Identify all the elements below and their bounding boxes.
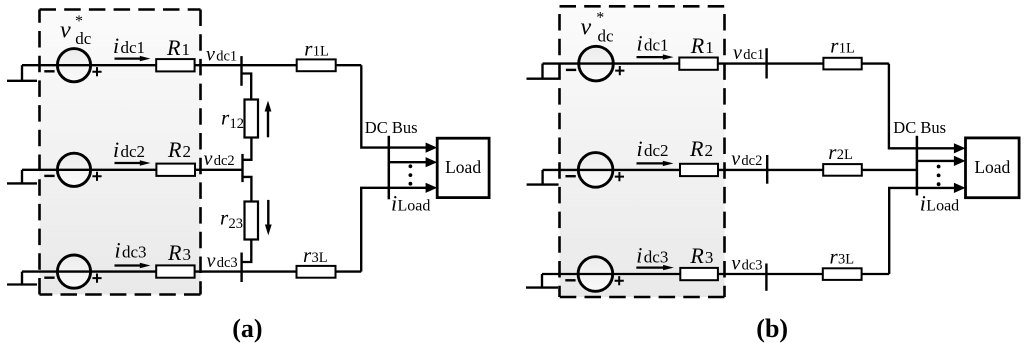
svg-text:v: v: [60, 17, 71, 43]
svg-text:3L: 3L: [838, 252, 854, 268]
label R2 (b): [689, 136, 713, 161]
label idc1 (a): [113, 33, 145, 58]
node tick vdc2 (b): [766, 155, 768, 184]
svg-text:i: i: [113, 137, 119, 162]
resistor R2 (b): [680, 164, 718, 176]
source circle U2b stroke: [578, 153, 613, 188]
svg-text:(b): (b): [756, 314, 788, 343]
polarity plus U1b: [615, 66, 624, 75]
source circle 3b fill: [578, 257, 613, 292]
load label (b): [974, 157, 1010, 177]
svg-text:2: 2: [705, 141, 714, 160]
label DC Bus (a): [365, 118, 418, 137]
label vdc2 (b): [731, 148, 762, 170]
wire row1 (b) down to bus arrow1: [889, 64, 954, 149]
svg-text:dc2: dc2: [121, 142, 146, 161]
svg-text:R: R: [689, 136, 704, 161]
current arrow idc2 (a): [115, 160, 151, 165]
label r23 (a): [220, 206, 243, 233]
polarity plus U3a: [92, 274, 101, 283]
current arrow up beside r12 (a): [265, 101, 272, 138]
resistor r1L (b): [823, 58, 861, 70]
wire row2 (b) main rail: [543, 169, 917, 171]
label r3L (b): [830, 245, 855, 269]
svg-text:2: 2: [183, 142, 192, 161]
polarity minus U2b: [566, 175, 576, 177]
label R3 (b): [689, 243, 713, 268]
resistor r2L (b): [823, 164, 862, 176]
label r1L (a): [304, 36, 329, 60]
svg-text:dc2: dc2: [214, 153, 235, 169]
svg-text:dc3: dc3: [742, 257, 763, 273]
source circle 2a fill: [57, 153, 90, 186]
svg-text:v: v: [731, 252, 740, 274]
resistor R1 (b): [679, 58, 718, 70]
svg-text:3: 3: [183, 245, 192, 264]
load box (b): [966, 138, 1020, 198]
label DC Bus (b): [893, 118, 946, 137]
source circle U1b stroke: [579, 46, 614, 81]
svg-text:Load: Load: [926, 198, 959, 215]
svg-text:DC Bus: DC Bus: [893, 118, 946, 137]
svg-text:dc1: dc1: [121, 38, 146, 57]
polarity plus U2b: [615, 172, 624, 181]
svg-text:1L: 1L: [313, 43, 329, 59]
svg-text:i: i: [637, 31, 643, 56]
source circle U3a stroke: [57, 255, 90, 288]
polarity minus U2a: [44, 175, 54, 177]
node tick vdc3 (b): [765, 264, 767, 291]
converter dashed box (b) border: [560, 6, 725, 297]
label v*dc (a): [60, 13, 92, 48]
svg-text:1L: 1L: [839, 41, 855, 57]
source circle U2a stroke: [57, 153, 90, 186]
svg-text:(a): (a): [232, 314, 262, 343]
svg-text:3: 3: [705, 248, 714, 267]
label R2 (a): [167, 137, 191, 162]
load arrow 1 (a): [426, 143, 438, 153]
label R1 (b): [690, 33, 714, 58]
svg-text:R: R: [689, 243, 704, 268]
polarity minus U1b: [566, 69, 576, 71]
svg-text:dc1: dc1: [644, 36, 669, 55]
wire vdc1 jog to r12 (a): [242, 74, 252, 100]
node tick vdc1 (b): [765, 48, 767, 78]
wire row3 (a) main rail: [22, 270, 361, 272]
label idc3 (b): [636, 242, 668, 267]
wire row1 (b) left terminal bar: [527, 78, 559, 80]
svg-text:R: R: [167, 240, 182, 265]
polarity minus U3b: [565, 279, 575, 281]
svg-text:v: v: [206, 43, 215, 65]
svg-text:3L: 3L: [312, 250, 328, 266]
node tick vdc3 (a): [240, 253, 242, 283]
svg-text:23: 23: [229, 216, 244, 232]
svg-text:R: R: [166, 35, 181, 60]
current arrow idc1 (a): [115, 56, 151, 61]
resistor r23 (a) vertical: [245, 202, 259, 240]
label vdc3 (a): [207, 250, 238, 272]
svg-text:1: 1: [182, 40, 191, 59]
svg-text:i: i: [637, 136, 643, 161]
converter dashed box (a) fill: [40, 10, 201, 295]
polarity minus U3a: [44, 277, 54, 279]
source circle 3a fill: [57, 255, 90, 288]
wire row3 (b) up to bus arrow3: [889, 188, 954, 274]
resistor R1 (a): [156, 59, 194, 71]
svg-text:v: v: [731, 148, 740, 170]
label R3 (a): [167, 240, 191, 265]
svg-text:R: R: [167, 137, 182, 162]
label R1 (a): [166, 35, 190, 60]
DC bus line (b): [916, 136, 919, 196]
source circle U1a stroke: [57, 49, 90, 82]
polarity minus U1a: [44, 70, 54, 72]
resistor R2 (a): [156, 164, 195, 176]
wire row2 (a) left stub vertical: [21, 170, 23, 184]
source circle 1a fill: [57, 49, 90, 82]
svg-text:Load: Load: [974, 157, 1010, 177]
label r2L (b): [828, 140, 853, 164]
label r1L (b): [830, 34, 855, 58]
wire row3 (b) left stub vertical: [541, 274, 543, 288]
wire bus arrow2 (a): [389, 161, 426, 163]
source circle U3b stroke: [578, 257, 613, 292]
svg-text:v: v: [733, 42, 742, 64]
wire row2 (b) left terminal bar: [527, 183, 559, 185]
load arrow 3 (b): [954, 183, 966, 193]
resistor r3L (b): [823, 268, 862, 280]
source circle 1b fill: [579, 46, 614, 81]
wire row3 (a) up to bus arrow3: [361, 188, 426, 272]
label idc2 (a): [113, 137, 145, 162]
resistor r12 (a) vertical: [245, 100, 259, 138]
caption (b): [756, 314, 788, 343]
source circle 2b fill: [578, 153, 613, 188]
resistor R3 (a): [156, 265, 194, 277]
svg-text:Load: Load: [398, 198, 431, 215]
label r12 (a): [221, 106, 244, 133]
wire vdc2 jog down to r23 (a): [243, 177, 252, 202]
load box (a): [437, 138, 489, 197]
svg-text:i: i: [113, 33, 119, 58]
caption (a): [232, 314, 262, 343]
svg-text:R: R: [690, 33, 705, 58]
bus dots (a): [409, 164, 413, 185]
label vdc1 (b): [733, 42, 764, 64]
wire row3 (a) left terminal bar: [7, 283, 37, 285]
wire row3 (a) left stub vertical: [21, 272, 23, 285]
svg-text:v: v: [204, 148, 213, 170]
polarity plus U3b: [615, 276, 624, 285]
wire row3 (b) left terminal bar: [526, 286, 558, 288]
svg-text:i: i: [391, 191, 397, 216]
bus dots (b): [937, 165, 941, 187]
wire row2 (a) main rail: [22, 169, 243, 171]
wire row2 (a) left terminal bar: [7, 182, 37, 184]
svg-text:dc3: dc3: [644, 247, 669, 266]
svg-text:v: v: [207, 250, 216, 272]
DC bus line (a): [388, 136, 391, 200]
label r3L (a): [303, 243, 328, 267]
label iLoad (a): [391, 191, 430, 216]
wire row1 (a) left stub vertical: [21, 65, 23, 81]
svg-text:dc: dc: [75, 29, 92, 48]
label iLoad (b): [920, 191, 959, 216]
svg-text:*: *: [75, 13, 83, 30]
converter dashed box (b) fill: [560, 6, 725, 297]
svg-text:dc: dc: [598, 27, 615, 46]
node tick vdc1 (a): [240, 56, 242, 86]
polarity plus U2a: [92, 172, 101, 181]
label vdc1 (a): [206, 43, 237, 65]
svg-text:2L: 2L: [837, 147, 853, 163]
svg-text:dc1: dc1: [743, 47, 764, 63]
svg-text:i: i: [115, 238, 121, 263]
resistor r3L (a): [297, 266, 336, 278]
svg-text:dc2: dc2: [644, 141, 669, 160]
resistor r1L (a): [297, 59, 336, 71]
svg-text:*: *: [596, 9, 604, 26]
load arrow 2 (b): [954, 156, 966, 166]
label v*dc (b): [581, 9, 615, 45]
svg-text:dc3: dc3: [217, 255, 238, 271]
wire row1 (a) down to bus arrow1: [361, 65, 426, 147]
svg-text:i: i: [920, 191, 926, 216]
wire row1 (a) main rail: [22, 64, 361, 66]
svg-text:i: i: [636, 242, 642, 267]
svg-text:dc2: dc2: [741, 153, 762, 169]
svg-text:12: 12: [230, 116, 245, 132]
label idc3 (a): [115, 238, 147, 263]
node tick vdc2 (a): [241, 154, 243, 182]
wire bus arrow2 (b): [917, 160, 954, 162]
converter dashed box (a) border: [40, 10, 201, 295]
label idc1 (b): [637, 31, 669, 56]
current arrow idc2 (b): [637, 161, 674, 166]
wire row1 (b) main rail: [543, 62, 889, 64]
wire row3 (b) main rail: [542, 273, 889, 275]
load arrow 1 (b): [954, 143, 966, 153]
wire vdc3 jog to r23 (a): [242, 240, 252, 263]
wire row1 (a) left terminal bar: [7, 80, 37, 82]
load label (a): [445, 157, 481, 177]
wire row2 (b) left stub vertical: [541, 170, 543, 185]
wire vdc2 jog up to r12 (a): [243, 138, 252, 160]
current arrow idc3 (a): [115, 263, 151, 268]
wire row1 (b) left stub vertical: [541, 64, 543, 79]
label vdc3 (b): [731, 252, 762, 274]
current arrow idc1 (b): [637, 54, 674, 59]
label idc2 (b): [637, 136, 669, 161]
svg-text:dc1: dc1: [216, 48, 237, 64]
load arrow 3 (a): [426, 183, 438, 193]
svg-text:dc3: dc3: [122, 243, 147, 262]
current arrow down beside r23 (a): [265, 200, 272, 236]
label vdc2 (a): [204, 148, 235, 170]
current arrow idc3 (b): [636, 265, 674, 270]
svg-text:Load: Load: [445, 157, 481, 177]
svg-text:1: 1: [705, 38, 714, 57]
polarity plus U1a: [92, 67, 101, 76]
svg-text:DC Bus: DC Bus: [365, 118, 418, 137]
load arrow 2 (a): [426, 157, 438, 167]
resistor R3 (b): [680, 268, 718, 280]
svg-text:v: v: [581, 15, 592, 41]
